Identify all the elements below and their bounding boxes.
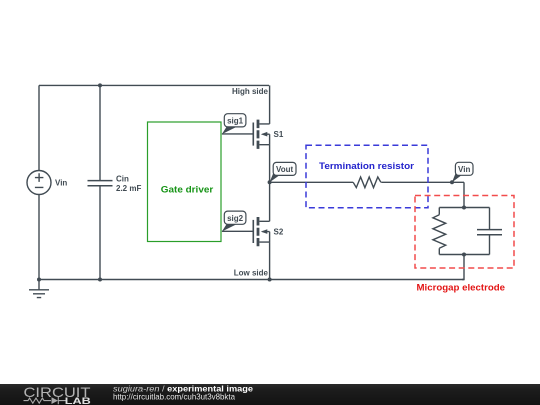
wire S1 source down to Vout node xyxy=(269,145,271,183)
node junction S2 source xyxy=(268,278,272,282)
logo diode triangle xyxy=(52,397,59,404)
wire S1 drain up xyxy=(269,85,271,124)
wire Cin top lead xyxy=(99,85,101,180)
wire Cin bottom lead xyxy=(99,186,101,279)
ground xyxy=(29,280,49,298)
logo squiggle resistor diode xyxy=(24,397,67,404)
wire Vout to resistor lead xyxy=(270,181,354,183)
wire RC bottom to bus xyxy=(462,255,464,280)
svg-text:Termination resistor: Termination resistor xyxy=(319,161,414,172)
wire top bus xyxy=(39,84,269,86)
wire S2 drain up to Vout node xyxy=(269,182,271,221)
wire RC left lead xyxy=(438,208,440,215)
transistor S1 nmos xyxy=(253,120,269,149)
svg-text:Low side: Low side xyxy=(234,269,269,278)
svg-text:Vin: Vin xyxy=(458,165,470,174)
transistor S2 body arrow xyxy=(261,229,268,234)
svg-text:Cin: Cin xyxy=(116,174,129,183)
svg-text:Gate driver: Gate driver xyxy=(161,184,214,195)
capacitor C2 microgap xyxy=(477,230,502,235)
annotation box Termination resistor xyxy=(306,145,428,208)
voltage source V1 Vin xyxy=(27,171,51,195)
wire C2 top lead xyxy=(489,208,491,230)
wire resistor to Vin node xyxy=(381,181,464,183)
node flag sig2 xyxy=(222,211,246,231)
wire R2 bottom lead xyxy=(438,248,440,254)
wire sig2 to S2 gate xyxy=(222,230,253,232)
svg-text:2.2 mF: 2.2 mF xyxy=(116,184,141,193)
capacitor C1 Cin xyxy=(88,181,113,186)
svg-text:S1: S1 xyxy=(274,130,284,139)
wire S2 source down to bottom bus xyxy=(269,242,271,279)
transistor S2 nmos xyxy=(253,217,269,246)
node flag sig1 xyxy=(222,114,246,134)
node junction RC top xyxy=(462,206,466,210)
node flag Vin xyxy=(452,162,473,182)
svg-text:Vout: Vout xyxy=(276,165,294,174)
wire source bottom xyxy=(38,195,40,280)
transistor S1 body arrow xyxy=(261,132,268,137)
footer bar xyxy=(0,384,540,405)
node junction RC bottom xyxy=(462,253,466,257)
annotation box Gate driver xyxy=(148,122,222,242)
node Vout junction xyxy=(268,180,272,184)
svg-text:Microgap electrode: Microgap electrode xyxy=(417,282,506,293)
wire RC top xyxy=(439,207,489,209)
node junction Cin bottom xyxy=(98,278,102,282)
annotation box Microgap electrode xyxy=(415,196,514,269)
node Vin junction xyxy=(450,180,454,184)
svg-text:Vin: Vin xyxy=(55,179,67,188)
wire sig1 to S1 gate xyxy=(222,133,253,135)
wire Vin node down xyxy=(463,182,465,207)
wire C2 bottom lead xyxy=(489,235,491,254)
resistor R1 termination xyxy=(353,177,381,188)
svg-text:High side: High side xyxy=(232,87,269,96)
wire left vertical to source xyxy=(38,85,40,170)
svg-text:LAB: LAB xyxy=(65,396,92,405)
svg-text:sig2: sig2 xyxy=(227,214,244,223)
wire RC bottom xyxy=(439,254,489,256)
svg-text:http://circuitlab.com/cuh3ut3v: http://circuitlab.com/cuh3ut3v8bkta xyxy=(113,392,235,401)
node junction ground xyxy=(37,278,41,282)
node flag Vout xyxy=(270,162,296,182)
wire bottom bus xyxy=(39,279,464,281)
svg-text:sig1: sig1 xyxy=(227,117,244,126)
node junction top of Cin xyxy=(98,83,102,87)
resistor R2 microgap xyxy=(433,215,446,249)
svg-text:S2: S2 xyxy=(274,228,284,237)
